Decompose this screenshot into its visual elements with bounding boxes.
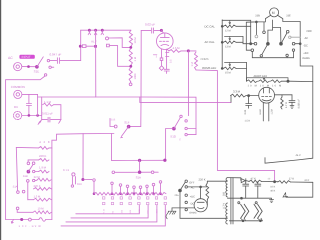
capacitor grid (248, 96, 250, 104)
switch rear contact square r1 c2 (120, 197, 122, 199)
node row junction (140, 193, 142, 195)
probe jack symbol (72, 173, 75, 176)
svg-text:23B: 23B (255, 15, 260, 18)
svg-text:1 M: 1 M (134, 56, 137, 61)
capacitor filter 2 (257, 182, 259, 185)
svg-text:350: 350 (222, 191, 225, 196)
switch S2A lever (262, 44, 268, 55)
wire B+ down right (286, 182, 313, 197)
wire wiper drop (139, 160, 141, 172)
wire contact up (110, 118, 114, 126)
svg-text:117 V: 117 V (222, 203, 225, 209)
tube V3 plate (197, 201, 204, 203)
wire contact drop (127, 188, 129, 194)
ground diamond (159, 66, 164, 71)
switch S1C wiper end circles (112, 171, 115, 174)
switch S1C contact x127.5 (126, 185, 129, 188)
diode rectifier (241, 179, 245, 183)
wire meter left lead (256, 15, 270, 22)
wire node down to faint contact (255, 22, 257, 35)
node row junction (146, 193, 148, 195)
wire pivot down to primary (180, 191, 227, 219)
switch S1B pivot (27, 170, 30, 173)
switch S1 contact circle (106, 37, 109, 40)
switch S2C contacts (185, 180, 187, 182)
wire line B to PS (217, 102, 274, 180)
svg-text:S1F: S1F (124, 121, 129, 125)
probe arrow (11, 220, 13, 224)
resistor 27K (278, 181, 291, 184)
svg-text:OFF: OFF (307, 30, 313, 33)
switch rear contact square r1 c7 (164, 197, 166, 199)
node row junction (160, 193, 162, 195)
wire contact drop (120, 186, 122, 193)
node y160 junctions (138, 159, 140, 161)
meter M1 (270, 8, 279, 17)
resistor plate 4.5M (167, 49, 169, 51)
switch S1E lever (37, 57, 43, 67)
svg-text:OFF: OFF (189, 181, 195, 184)
switch S1B contact right2 (33, 179, 35, 181)
wire x16 down (16, 147, 17, 190)
switch S1C contact x140.5 (139, 186, 142, 189)
wire bottom contact down (27, 182, 29, 200)
wire cathode net to meter column (265, 158, 313, 164)
wire V2 plate right (275, 94, 293, 96)
wire wafer bottom link (252, 52, 293, 58)
wire contact drop (111, 185, 113, 194)
svg-text:OHMS: OHMS (201, 58, 209, 61)
tube V1 cathode (161, 45, 169, 46)
wire contact drop (133, 189, 135, 194)
switch S1C contact x112.0 (111, 182, 114, 185)
transformer T1 secondary winding (226, 178, 228, 197)
svg-text:23E: 23E (286, 15, 291, 18)
wire contact drop (153, 186, 155, 194)
switch rear contact square r1 c3 (129, 197, 131, 199)
switch S1B contact bottom (27, 180, 30, 183)
node bottom junction (21, 218, 23, 220)
node chain tap2 (130, 65, 132, 67)
wire z1 left to x16 (16, 146, 38, 149)
wire contact drop (140, 189, 142, 194)
svg-text:100K: 100K (134, 73, 137, 79)
switch S1A contact pair (17, 191, 20, 194)
node meter lead (256, 21, 258, 23)
svg-text:DC: DC (14, 105, 18, 109)
svg-text:M: M (272, 11, 275, 15)
switch S1D pivot (173, 127, 176, 130)
switch rear contact square r1 c1 (111, 197, 113, 199)
node grid cap (160, 29, 162, 31)
wire top row to transformer (207, 180, 227, 182)
node bus junction x102.3 (101, 29, 103, 31)
wire pot2 out (236, 42, 251, 43)
wire pot3 out (236, 68, 247, 81)
left scan edge (0, 0, 2, 240)
potentiometer ZERO ADJ arrow (247, 78, 289, 82)
wire line B (140, 97, 231, 102)
tube V3 rectifier (194, 199, 207, 212)
svg-text:S1A: S1A (136, 176, 141, 180)
connector J1 AC jack (14, 63, 22, 71)
tube V2 plates (263, 88, 265, 93)
switch rear contact square r2 c7 (164, 202, 166, 204)
potentiometer AC CAL (224, 41, 237, 44)
svg-text:4 2 8: 4 2 8 (39, 140, 50, 144)
svg-text:DC CAL: DC CAL (205, 24, 216, 28)
wire x111 down (111, 134, 113, 161)
wire heater bottom (229, 220, 262, 222)
potentiometer OHMS ADJ (224, 67, 237, 70)
capacitor 0.005 (291, 95, 293, 101)
svg-text:4.7 M: 4.7 M (285, 102, 288, 108)
svg-text:4a V: 4a V (296, 154, 301, 157)
svg-text:INPUT: INPUT (22, 55, 31, 59)
wire ohms R to line B (196, 70, 217, 102)
wire cal bus (221, 20, 223, 69)
switch rear contact square r1 c5 (147, 197, 149, 199)
switch S1 contact square (107, 44, 110, 47)
switch S1D lever (174, 118, 180, 129)
switch S2B pivot (280, 42, 283, 45)
node junctions (28, 115, 30, 117)
wire pot1 out (236, 26, 251, 43)
wire pot2 wiper loop (225, 36, 244, 42)
resistor 1.1M (43, 103, 54, 106)
node plate junction (187, 50, 189, 52)
resistor row series string (94, 192, 166, 195)
wire y160 (112, 159, 166, 161)
node row junction (111, 193, 113, 195)
svg-text:-DC: -DC (303, 45, 308, 48)
svg-text:S1E: S1E (34, 70, 40, 74)
capacitor blocking (28, 94, 30, 103)
wire S1E to C1 (50, 60, 57, 62)
tube V1 plate (160, 36, 169, 38)
wire pivot left/down (166, 129, 173, 161)
fuse squiggle (39, 218, 46, 222)
svg-text:220 K: 220 K (199, 178, 206, 181)
svg-text:R1 F: R1 F (91, 41, 97, 44)
switch S2B lever (281, 33, 287, 44)
contact faint (255, 35, 258, 38)
switch S2C pivot (179, 189, 182, 192)
capacitor C2 0.02uF (151, 28, 153, 33)
resistor 3.3M (231, 94, 247, 97)
svg-text:3.3 M: 3.3 M (233, 90, 241, 94)
svg-text:OHMS ADJ: OHMS ADJ (202, 66, 217, 70)
wire common drop (37, 94, 39, 115)
switch S1E contact top (47, 59, 49, 61)
wire V2 cathode leads (262, 103, 264, 121)
node junction x80 y46 (79, 45, 81, 47)
switch rear contact square r2 c5 (147, 202, 149, 204)
switch S1F lever (122, 127, 129, 136)
svg-text:1.5 M: 1.5 M (34, 195, 41, 198)
svg-text:0.005 uF: 0.005 uF (298, 99, 301, 109)
node bus junction x89.4 (88, 29, 90, 31)
switch rear contact square r1 c0 (103, 197, 105, 199)
switch rear contact square r2 c1 (111, 202, 113, 204)
wire J1 to S1E (22, 66, 37, 68)
node gnd bus junction (241, 197, 243, 199)
svg-text:S1B: S1B (111, 119, 116, 122)
switch S2B contact -DC (292, 42, 295, 45)
potentiometer DC CAL (224, 25, 237, 28)
wire vertical x95 (95, 30, 97, 97)
capacitor C1 0.047uF (56, 58, 58, 64)
resistor chain R3 (129, 67, 132, 81)
svg-text:S1D: S1D (170, 134, 176, 138)
svg-text:+DC: +DC (190, 195, 195, 198)
svg-text:AC CAL: AC CAL (205, 40, 216, 44)
wire J3 right (22, 115, 42, 117)
svg-text:20a: 20a (175, 194, 180, 197)
heater winding zigzag 1 (241, 204, 246, 218)
switch rear contact square r2 c6 (155, 202, 157, 204)
ground symbol ps (269, 198, 273, 202)
switch S1C wiper bar (115, 171, 153, 173)
svg-text:10 M: 10 M (38, 207, 45, 210)
connector J3 dc (14, 111, 22, 119)
switch S2B contact OFF (286, 30, 289, 33)
wire contact drop (93, 181, 95, 193)
wire z6 left (28, 199, 34, 201)
switch S1B lever contact (32, 162, 35, 165)
wire drop x41 (41, 97, 43, 120)
wire pot1 wiper loop (222, 20, 251, 26)
svg-text:S1A: S1A (13, 186, 18, 189)
node row junction (93, 193, 95, 195)
node row junction (120, 193, 122, 195)
resistor row 10M x3 (247, 80, 258, 83)
wire C1 to riser (60, 60, 80, 62)
wire y133 to S1F area (83, 133, 114, 135)
wire bottom row (6, 219, 39, 221)
switch S2B riser (273, 28, 281, 44)
switch S1B lever (28, 165, 33, 172)
wire meter right lead (278, 15, 301, 21)
svg-text:13 M: 13 M (225, 45, 231, 48)
node grid junction (248, 95, 250, 97)
wire grid vertical (129, 30, 142, 126)
wire contact drop (146, 188, 148, 194)
heater winding zigzag 2 (254, 204, 259, 218)
wire x188 to S1D (187, 51, 189, 116)
svg-text:10 K: 10 K (270, 186, 275, 189)
svg-text:OHMS: OHMS (302, 57, 310, 60)
wire contacts to x196 (187, 128, 196, 130)
svg-text:220 K: 220 K (39, 154, 46, 158)
node bus junction x95.6 (95, 29, 97, 31)
wire V3 to ground (172, 208, 194, 211)
switch S1A contact low (16, 207, 19, 210)
wire ground bus ps (228, 197, 272, 199)
wire secondary top to diode (228, 177, 241, 179)
tube V2 grid (262, 96, 272, 98)
wire contact to chain tap1 (109, 38, 130, 48)
node cal taps (221, 25, 223, 27)
resistor ladder z7 (33, 211, 51, 214)
switch S1B contact top (27, 162, 30, 165)
svg-text:+DC: +DC (303, 52, 309, 55)
wire z1 right staircase (49, 134, 83, 148)
switch S2A contact 2 (251, 49, 254, 52)
tube V3 cathode (198, 208, 204, 209)
node row junction (153, 193, 155, 195)
ground arrow B- (283, 193, 288, 198)
wire C2 to grid cap (154, 29, 161, 31)
switch wiper symbol (101, 30, 104, 35)
switch S1C contact x94.0 (93, 179, 96, 182)
switch S2A contact (254, 42, 257, 45)
ground hatch right (59, 120, 61, 124)
switch rear contact square r2 c4 (138, 202, 140, 204)
capacitor filter 1 (245, 182, 247, 185)
svg-text:COMMON: COMMON (11, 85, 25, 89)
capacitor box (160, 58, 163, 61)
wire top bus (81, 29, 131, 31)
tube V1 grid (159, 40, 168, 42)
transformer T1 primary winding (226, 203, 228, 224)
node row right (287, 80, 289, 82)
wire z7 left (17, 210, 33, 213)
chassis ground (167, 211, 176, 214)
node junction on AC wire (28, 66, 30, 68)
switch rear contact square r2 c2 (120, 202, 122, 204)
contact faint AC (289, 36, 291, 38)
switch S2A pivot (267, 42, 270, 45)
node row junction (133, 193, 135, 195)
node chain tap1 (130, 46, 132, 48)
tube V2 envelope (259, 87, 275, 103)
wire rear-deck nested line 2 (71, 205, 148, 218)
switch S1C contact x153.5 (152, 183, 155, 186)
wire z2 left (28, 160, 39, 162)
resistor 47K (249, 180, 262, 183)
resistor chain R1 (129, 30, 132, 46)
svg-text:1 0 F - 1/2 W: 1 0 F - 1/2 W (19, 225, 42, 228)
svg-text:0.02 uF: 0.02 uF (145, 22, 155, 26)
resistor ladder z6 (34, 198, 52, 201)
wire to ohms R (189, 50, 196, 52)
resistor ladder z3 (39, 170, 49, 173)
capacitor bypass (164, 68, 169, 70)
switch S2B contact OHMS (286, 54, 288, 56)
svg-text:6.8M: 6.8M (259, 109, 262, 114)
svg-text:1 M: 1 M (191, 62, 194, 66)
wire rear-deck nested line 3 (66, 205, 157, 222)
switch S2B contact +DC (292, 49, 294, 51)
node row junction (127, 193, 129, 195)
wire J2 right (22, 93, 38, 95)
svg-text:47 K: 47 K (251, 178, 257, 181)
wire node to contact (84, 179, 92, 181)
svg-text:S1B: S1B (23, 175, 28, 178)
svg-text:10 M: 10 M (134, 37, 137, 44)
wire B+ row (246, 180, 249, 183)
wire pivot riser (268, 20, 273, 44)
resistor ladder z1 (39, 147, 49, 150)
switch S1E contact mid (49, 66, 51, 68)
switch S1E pivot (36, 65, 39, 68)
svg-text:AC: AC (305, 37, 309, 40)
switch S1C contact x147.0 (146, 185, 149, 188)
resistor ladder z5 (34, 188, 52, 191)
node x83 y179 (82, 178, 84, 180)
node pots join (250, 43, 252, 45)
switch S2C lever (180, 183, 185, 191)
svg-text:1.5 K: 1.5 K (245, 120, 251, 123)
capacitor 0.011 (42, 119, 48, 121)
switch rear contact square r1 c6 (155, 197, 157, 199)
switch wiper symbol (88, 30, 91, 35)
wire rear-deck nested line 4 (61, 205, 165, 226)
svg-text:0.047 uF: 0.047 uF (50, 53, 62, 57)
svg-text:OHMS: OHMS (189, 212, 197, 215)
switch rear contact square r1 c4 (138, 197, 140, 199)
svg-text:220 K: 220 K (34, 185, 41, 188)
contact circle bottom (29, 218, 32, 221)
wire left rail (6, 76, 45, 220)
node B+ mid (274, 181, 276, 183)
switch rear contact square r2 c0 (103, 202, 105, 204)
wire riser x81 (80, 30, 82, 60)
svg-text:0.02: 0.02 (244, 109, 247, 114)
switch S1C contact x120.5 (119, 184, 122, 187)
svg-text:42 P: 42 P (304, 179, 309, 182)
cathode wire 1 (161, 49, 163, 58)
wire ground bus A (38, 97, 196, 135)
ground hatch (290, 106, 294, 109)
wire AC contact to rectifier (188, 186, 201, 188)
switch S1F contact (114, 125, 117, 128)
svg-text:0.5: 0.5 (170, 59, 173, 63)
resistor ladder z2 (39, 159, 49, 162)
switch S1C contact x134.0 (133, 186, 136, 189)
wire y46 to node (86, 45, 94, 47)
switch S1E contact bottom (44, 74, 46, 76)
switch S1C contact x160.5 (159, 181, 162, 184)
node big junction x95 y46 (94, 45, 97, 48)
heater terminals (238, 202, 240, 204)
ladder right bus (51, 148, 53, 220)
svg-text:R18: R18 (77, 183, 82, 186)
svg-text:15 M: 15 M (225, 72, 231, 75)
switch S1F pivot (127, 125, 130, 128)
tube V2 cathode (262, 100, 271, 101)
svg-text:40 K: 40 K (270, 189, 275, 192)
ground hatch left (38, 120, 42, 125)
resistor ohms vertical (195, 52, 198, 70)
svg-text:27 K: 27 K (289, 177, 295, 180)
transformer T1 core (230, 178, 232, 224)
resistor chain R2 (129, 48, 132, 65)
wire to C2 (141, 29, 151, 31)
resistor 220K vertical (206, 183, 209, 200)
cathode wire 2 (166, 49, 168, 69)
wire contact to chain tap2 (110, 46, 131, 67)
switch wiper symbol (94, 30, 97, 35)
connector J2 common (14, 90, 22, 98)
connector plug symbol (82, 45, 86, 48)
resistor 4.7M vertical (281, 97, 284, 109)
wire corner down to S1C (82, 134, 84, 180)
wire rear-deck nested line 1 (76, 205, 140, 214)
pin tick (153, 54, 157, 56)
svg-text:0.011 uF: 0.011 uF (42, 112, 53, 116)
